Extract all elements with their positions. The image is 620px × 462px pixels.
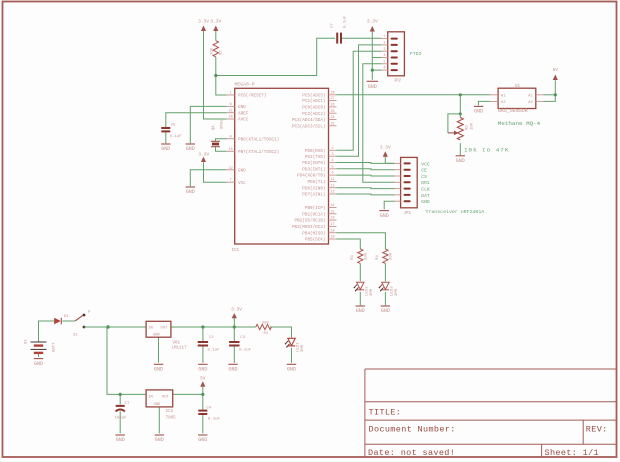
svg-text:C2: C2 bbox=[209, 336, 214, 340]
svg-text:GND: GND bbox=[186, 189, 195, 195]
svg-text:4: 4 bbox=[384, 53, 386, 57]
svg-text:REV:: REV: bbox=[586, 425, 608, 435]
svg-text:U1: U1 bbox=[515, 85, 521, 89]
svg-text:3MM: 3MM bbox=[301, 344, 305, 352]
svg-text:18: 18 bbox=[330, 229, 334, 233]
svg-text:6: 6 bbox=[384, 66, 386, 70]
svg-text:100uF: 100uF bbox=[115, 416, 128, 420]
svg-text:PB1(OC1A): PB1(OC1A) bbox=[302, 212, 325, 217]
svg-text:PB4(MISO): PB4(MISO) bbox=[302, 231, 325, 236]
svg-text:LED1: LED1 bbox=[297, 342, 301, 352]
svg-text:IN: IN bbox=[148, 327, 153, 331]
svg-text:GND: GND bbox=[474, 109, 483, 115]
svg-text:21: 21 bbox=[229, 109, 233, 113]
svg-text:IN: IN bbox=[148, 396, 153, 400]
svg-text:GND: GND bbox=[287, 367, 296, 373]
svg-text:13: 13 bbox=[330, 191, 334, 195]
svg-text:330: 330 bbox=[262, 321, 270, 325]
svg-text:PC5(ADC5): PC5(ADC5) bbox=[302, 93, 325, 98]
svg-text:0.1uF: 0.1uF bbox=[170, 135, 183, 139]
svg-text:Date: not saved!: Date: not saved! bbox=[368, 448, 455, 458]
svg-text:GND: GND bbox=[381, 308, 390, 314]
svg-text:C7: C7 bbox=[331, 23, 335, 28]
svg-text:PB5(SCK): PB5(SCK) bbox=[305, 238, 326, 243]
svg-text:0.1uF: 0.1uF bbox=[239, 349, 252, 353]
svg-text:10K: 10K bbox=[471, 122, 475, 130]
svg-text:9: 9 bbox=[230, 135, 232, 139]
svg-text:PD4(XCK/T0): PD4(XCK/T0) bbox=[297, 174, 325, 179]
svg-text:DAT: DAT bbox=[421, 193, 430, 199]
svg-text:330: 330 bbox=[390, 252, 394, 260]
svg-text:R1: R1 bbox=[264, 332, 269, 336]
svg-text:GND: GND bbox=[421, 199, 430, 205]
svg-text:4: 4 bbox=[331, 159, 333, 163]
svg-text:10K: 10K bbox=[210, 47, 214, 55]
svg-text:5: 5 bbox=[331, 165, 333, 169]
svg-text:A1: A1 bbox=[528, 94, 533, 98]
svg-text:FTDI: FTDI bbox=[410, 51, 422, 57]
svg-text:LED2: LED2 bbox=[366, 286, 370, 296]
svg-text:C5: C5 bbox=[171, 123, 176, 127]
svg-text:16: 16 bbox=[330, 217, 334, 221]
svg-text:GND: GND bbox=[154, 367, 163, 373]
svg-text:GND: GND bbox=[34, 361, 43, 367]
svg-text:VR1: VR1 bbox=[173, 342, 181, 346]
svg-text:A2: A2 bbox=[528, 101, 533, 105]
svg-text:15: 15 bbox=[330, 210, 334, 214]
svg-text:Q1: Q1 bbox=[212, 125, 216, 130]
svg-text:PD3(INT1): PD3(INT1) bbox=[302, 167, 325, 172]
svg-text:C4: C4 bbox=[206, 406, 211, 410]
svg-text:BATT: BATT bbox=[53, 342, 57, 352]
svg-text:3: 3 bbox=[331, 153, 333, 157]
svg-text:8MHz: 8MHz bbox=[221, 119, 225, 129]
svg-text:AVCC: AVCC bbox=[238, 118, 249, 123]
svg-text:IC1: IC1 bbox=[232, 249, 240, 253]
svg-text:0.1uF: 0.1uF bbox=[344, 15, 348, 28]
svg-text:PC0(ADC0): PC0(ADC0) bbox=[302, 106, 325, 111]
svg-text:D1: D1 bbox=[64, 315, 69, 319]
svg-text:PB2(SS/OC1B): PB2(SS/OC1B) bbox=[295, 219, 326, 224]
svg-text:TITLE:: TITLE: bbox=[369, 408, 402, 418]
svg-text:GND: GND bbox=[228, 367, 237, 373]
svg-text:PD5(T1): PD5(T1) bbox=[307, 180, 325, 185]
svg-text:GND: GND bbox=[186, 146, 195, 152]
svg-text:2: 2 bbox=[331, 147, 333, 151]
svg-text:20: 20 bbox=[229, 116, 233, 120]
svg-text:PC1(ADC1): PC1(ADC1) bbox=[302, 99, 325, 104]
svg-text:3.3V: 3.3V bbox=[231, 306, 242, 312]
svg-text:5V: 5V bbox=[200, 376, 206, 382]
svg-text:10k to 47K: 10k to 47K bbox=[464, 147, 509, 154]
svg-text:CLK: CLK bbox=[421, 187, 430, 193]
svg-text:GND: GND bbox=[161, 146, 170, 152]
svg-text:12: 12 bbox=[330, 184, 334, 188]
svg-text:17: 17 bbox=[330, 223, 334, 227]
svg-text:PB7(XTAL2/TOSC2): PB7(XTAL2/TOSC2) bbox=[238, 150, 279, 155]
svg-text:Transceiver nRF2401A: Transceiver nRF2401A bbox=[426, 209, 485, 215]
svg-text:C1: C1 bbox=[125, 402, 130, 406]
svg-text:7: 7 bbox=[230, 178, 232, 182]
svg-text:Document Number:: Document Number: bbox=[369, 425, 456, 435]
svg-text:Sheet: 1/1: Sheet: 1/1 bbox=[545, 448, 600, 458]
svg-text:5V: 5V bbox=[553, 67, 559, 73]
svg-text:OUT: OUT bbox=[161, 327, 169, 331]
svg-text:PD7(AIN1): PD7(AIN1) bbox=[302, 193, 325, 198]
svg-text:LED3: LED3 bbox=[391, 286, 395, 296]
svg-text:R2: R2 bbox=[219, 50, 223, 55]
svg-text:GND: GND bbox=[198, 367, 207, 373]
svg-text:DR1: DR1 bbox=[421, 180, 430, 186]
svg-text:OUT: OUT bbox=[162, 396, 170, 400]
svg-text:3.3V: 3.3V bbox=[198, 151, 209, 157]
svg-text:GND: GND bbox=[155, 437, 164, 443]
svg-text:PC6(/RESET): PC6(/RESET) bbox=[238, 94, 266, 99]
svg-text:PD0(RXD): PD0(RXD) bbox=[305, 149, 326, 154]
svg-text:JP1: JP1 bbox=[404, 212, 412, 216]
svg-text:GND: GND bbox=[198, 437, 207, 443]
svg-text:GND: GND bbox=[153, 334, 161, 338]
svg-text:MEGA8-P: MEGA8-P bbox=[235, 82, 255, 88]
svg-text:19: 19 bbox=[330, 236, 334, 240]
svg-text:H2: H2 bbox=[501, 101, 506, 105]
svg-text:27: 27 bbox=[330, 97, 334, 101]
svg-text:GND: GND bbox=[238, 105, 246, 110]
svg-text:PC3(ADC3/SCL): PC3(ADC3/SCL) bbox=[292, 124, 326, 129]
svg-text:S1: S1 bbox=[73, 334, 78, 338]
svg-text:1: 1 bbox=[230, 92, 232, 96]
svg-text:B1: B1 bbox=[25, 339, 29, 344]
svg-text:3: 3 bbox=[384, 47, 386, 51]
svg-text:R4: R4 bbox=[376, 255, 380, 260]
svg-text:26: 26 bbox=[330, 104, 334, 108]
svg-text:1: 1 bbox=[384, 34, 386, 38]
svg-text:3.3V: 3.3V bbox=[210, 19, 221, 25]
svg-text:25: 25 bbox=[330, 110, 334, 114]
svg-text:PD2(INT0): PD2(INT0) bbox=[302, 161, 325, 166]
svg-text:3MM: 3MM bbox=[370, 288, 374, 296]
svg-text:5: 5 bbox=[384, 59, 386, 63]
svg-text:H1: H1 bbox=[501, 94, 506, 98]
svg-text:11: 11 bbox=[330, 178, 334, 182]
svg-text:CE: CE bbox=[421, 168, 427, 174]
svg-text:24: 24 bbox=[330, 116, 334, 120]
svg-text:CS: CS bbox=[421, 174, 427, 180]
svg-text:AREF: AREF bbox=[238, 111, 249, 116]
svg-text:3MM: 3MM bbox=[395, 288, 399, 296]
svg-text:R3: R3 bbox=[351, 255, 355, 260]
svg-text:PD1(TXD): PD1(TXD) bbox=[305, 155, 326, 160]
svg-text:22: 22 bbox=[229, 167, 233, 171]
svg-text:3.3V: 3.3V bbox=[380, 145, 391, 151]
svg-text:PD6(AIN0): PD6(AIN0) bbox=[302, 186, 325, 191]
svg-text:PB0(ICP): PB0(ICP) bbox=[305, 206, 326, 211]
svg-text:IC2: IC2 bbox=[166, 410, 174, 414]
svg-text:GND: GND bbox=[238, 168, 246, 173]
svg-text:3.3V: 3.3V bbox=[367, 19, 378, 25]
svg-text:0.1uF: 0.1uF bbox=[208, 349, 221, 353]
svg-text:GAS_SENSOR: GAS_SENSOR bbox=[498, 108, 528, 114]
svg-text:GND: GND bbox=[356, 308, 365, 314]
svg-text:GND: GND bbox=[154, 403, 162, 407]
svg-text:LM1117: LM1117 bbox=[172, 347, 188, 351]
svg-text:GND: GND bbox=[116, 437, 125, 443]
svg-text:GND: GND bbox=[456, 158, 465, 164]
svg-text:JP2: JP2 bbox=[394, 80, 402, 84]
svg-text:14: 14 bbox=[330, 204, 334, 208]
svg-text:PB6(XTAL1/TOSC1): PB6(XTAL1/TOSC1) bbox=[238, 137, 279, 142]
svg-text:3.3V: 3.3V bbox=[198, 19, 209, 25]
svg-text:23: 23 bbox=[330, 122, 334, 126]
svg-text:R5: R5 bbox=[466, 125, 470, 130]
svg-text:GND: GND bbox=[380, 213, 389, 219]
svg-text:0.1uF: 0.1uF bbox=[208, 418, 221, 422]
svg-text:PB3(MOSI/OC2): PB3(MOSI/OC2) bbox=[292, 225, 326, 230]
svg-text:C3: C3 bbox=[240, 336, 245, 340]
svg-text:28: 28 bbox=[330, 91, 334, 95]
svg-text:8: 8 bbox=[230, 103, 232, 107]
svg-text:GND: GND bbox=[368, 84, 377, 90]
svg-text:VCC: VCC bbox=[421, 161, 430, 167]
svg-text:10: 10 bbox=[229, 148, 233, 152]
svg-text:PC4(ADC4/SDA): PC4(ADC4/SDA) bbox=[292, 118, 326, 123]
svg-text:330: 330 bbox=[365, 252, 369, 260]
svg-text:VCC: VCC bbox=[238, 181, 246, 186]
svg-text:2: 2 bbox=[384, 41, 386, 45]
svg-text:Methane MQ-4: Methane MQ-4 bbox=[498, 120, 541, 127]
svg-text:6: 6 bbox=[331, 172, 333, 176]
svg-text:7805: 7805 bbox=[166, 417, 177, 421]
svg-text:PC2(ADC2): PC2(ADC2) bbox=[302, 112, 325, 117]
